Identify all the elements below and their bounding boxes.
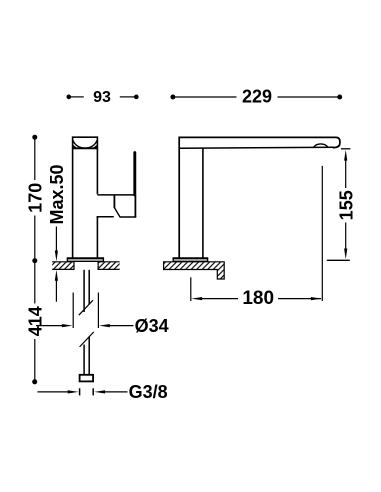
svg-text:93: 93	[93, 89, 111, 106]
handle block chamfer	[114, 208, 120, 218]
aerator bump	[313, 144, 328, 148]
countertop section left (front view)	[52, 262, 74, 270]
cap corner wedge left	[72, 144, 77, 147]
countertop section (side view)	[164, 262, 225, 279]
faucet body (front view)	[73, 137, 98, 257]
base plate (side view)	[173, 258, 207, 261]
handle block bottom	[120, 216, 137, 218]
dimension G3/8	[79, 388, 81, 395]
dimension 180	[190, 277, 192, 301]
spout profile (side view)	[179, 137, 340, 258]
svg-text:414: 414	[25, 306, 45, 336]
dimension 93	[66, 95, 71, 100]
handle block left edge	[113, 195, 115, 208]
hose break slash upper	[79, 300, 93, 315]
svg-text:Ø34: Ø34	[135, 316, 169, 336]
column right edge (side view)	[202, 148, 204, 258]
svg-text:170: 170	[25, 183, 45, 213]
cap corner wedge right	[93, 144, 98, 147]
supply hose upper segment	[83, 270, 85, 312]
dimension 229	[170, 95, 175, 100]
supply hose lower segment	[83, 345, 85, 375]
hose break slash lower	[80, 332, 94, 347]
svg-text:Max.50: Max.50	[47, 164, 67, 224]
G3/8 connector end	[80, 375, 94, 382]
svg-text:229: 229	[242, 87, 272, 107]
svg-text:180: 180	[242, 288, 274, 309]
spout underside line	[179, 146, 334, 149]
body step bottom	[97, 216, 114, 218]
svg-text:155: 155	[336, 190, 356, 220]
body cap arc	[73, 140, 97, 148]
dimension 414	[32, 379, 37, 384]
dimension 155	[341, 148, 351, 150]
dimension Ø34	[72, 293, 74, 329]
handle lever bar	[133, 153, 136, 195]
svg-text:G3/8: G3/8	[129, 382, 168, 402]
handle block right edge	[134, 195, 136, 217]
handle top line	[97, 194, 134, 196]
dimension 170	[32, 135, 37, 140]
body cap chord	[72, 147, 98, 149]
base plate (front view)	[67, 258, 103, 261]
countertop section right (front view)	[98, 262, 120, 270]
